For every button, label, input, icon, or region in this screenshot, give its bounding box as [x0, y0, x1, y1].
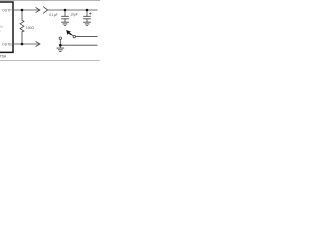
svg-text:0.1μF: 0.1μF: [49, 13, 58, 17]
svg-text:10μF: 10μF: [70, 13, 78, 17]
svg-text:OUTP: OUTP: [2, 9, 12, 13]
svg-text:OUTB: OUTB: [2, 43, 12, 47]
svg-text:TDA: TDA: [0, 54, 7, 58]
svg-text:100Ω: 100Ω: [26, 26, 35, 30]
